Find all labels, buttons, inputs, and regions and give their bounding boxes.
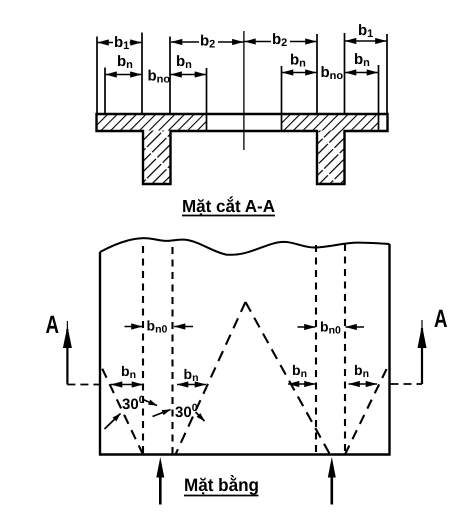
dashed rib line right-right (344, 244, 346, 454)
dashed rib line left-right (171, 247, 173, 454)
hatch left flange region (97, 115, 207, 131)
plan dimension bn 4 (349, 362, 378, 384)
dashed 30deg spread line bottom-right (345, 363, 390, 455)
dashed rib line right-left (315, 245, 317, 454)
svg-text:A: A (46, 311, 60, 339)
plan right edge (388, 244, 390, 456)
dashed spread triangle right leg (246, 302, 331, 455)
flange divider line at bn left end (206, 68, 208, 131)
plan bottom edge (99, 453, 391, 455)
dimension b1 left (98, 34, 142, 52)
leader arrow A to 30deg no.1 (105, 414, 121, 430)
dimension bn0 right : arrows pointing inward (298, 319, 365, 337)
centerline (243, 31, 245, 150)
dimension bn 1 (106, 53, 142, 75)
extension line L4 rib right edge (169, 37, 171, 115)
dashed spread triangle left leg (176, 302, 246, 455)
dimension bn0 left : arrows pointing inward (125, 318, 194, 336)
flange divider line near right end (378, 65, 380, 131)
extension line L3 rib left edge (141, 33, 143, 115)
dimension bn 2 (171, 53, 207, 75)
extension line L1 (96, 37, 98, 115)
plan dimension bn 1 (111, 363, 143, 385)
plan dimension bn 2 (177, 366, 206, 385)
extension line R4 (316, 34, 318, 114)
slab/beam section outline (97, 114, 388, 184)
svg-text:A: A (434, 305, 448, 333)
hatch right rib region (317, 131, 345, 184)
dashed rib line left-left (142, 246, 144, 454)
bottom support arrow left (156, 457, 164, 505)
dimension bn 4 (345, 51, 378, 73)
section line A-A right corner (391, 320, 427, 384)
leader arrow D from 30deg no.2 (196, 412, 205, 421)
extension line L2 (104, 68, 106, 115)
hatch right flange region (282, 115, 379, 131)
title Mat bang (184, 474, 259, 496)
leader arrow C to 30deg no.2 (153, 410, 171, 417)
dashed 30deg spread line bottom-left (100, 364, 143, 455)
flange divider line at bn right start (281, 66, 283, 131)
extension line R1 (386, 34, 388, 114)
plan left edge (99, 252, 101, 456)
dimension b2 left (171, 33, 243, 51)
bottom support arrow right (328, 457, 336, 505)
dimension bn 3 (282, 52, 317, 73)
dimension b2 right (244, 31, 316, 49)
section line A-A left corner (63, 321, 99, 385)
svg-text:Mặt bằng: Mặt bằng (184, 474, 259, 495)
plan dimension bn 3 (288, 362, 316, 384)
dimension b1 right (345, 22, 387, 41)
svg-text:Mặt cắt A-A: Mặt cắt A-A (182, 196, 275, 216)
title Mat cat A-A (182, 196, 275, 216)
hatch left rib region (143, 131, 171, 184)
wavy break line (top of plan) (100, 238, 390, 255)
extension line R3 (344, 33, 346, 114)
leader arrow B from 30deg no.1 (143, 400, 157, 406)
